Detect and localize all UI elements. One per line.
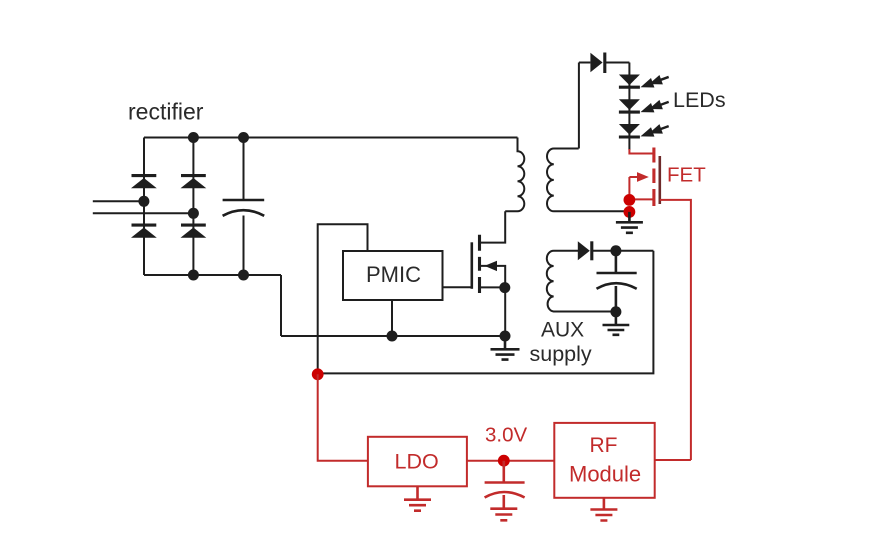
node dot PMIC ground <box>387 331 398 342</box>
svg-text:LEDs: LEDs <box>673 88 726 112</box>
svg-text:LDO: LDO <box>395 450 439 474</box>
diode D9 aux rectifier <box>578 241 592 260</box>
transistor Q1 MOSFET gate bar <box>470 242 473 288</box>
wire Q2 gate to RF module <box>660 200 691 460</box>
wire aux output <box>592 250 653 252</box>
wire rectifier bottom rail <box>144 274 281 276</box>
node dot top rail middle <box>188 132 199 143</box>
ground symbol LDO <box>404 486 431 510</box>
ground symbol aux <box>603 312 630 335</box>
RF module box U3 <box>554 423 654 498</box>
capacitor C2 aux <box>597 251 637 312</box>
ground symbol FET source <box>616 212 643 233</box>
transistor Q1 body connection <box>480 266 506 288</box>
wire rectifier left leg <box>143 138 145 276</box>
transistor Q2 channel segments <box>652 148 655 207</box>
transformer T1 secondary winding <box>547 149 627 212</box>
PMIC box U1 <box>343 251 443 300</box>
LDO box U2 <box>368 437 467 487</box>
wire aux to dc node <box>320 251 653 374</box>
transistor Q2 body diode arrow <box>637 172 649 182</box>
LED D7 <box>619 99 640 112</box>
node dot aux cap ground <box>610 306 621 317</box>
node dot Q1 source <box>499 282 510 293</box>
node dot aux output <box>610 245 621 256</box>
wire LED chain vertical <box>628 63 630 151</box>
transistor Q1 drain wire to transformer <box>480 211 506 242</box>
wire diode to LED chain <box>605 62 630 64</box>
wire RF module output <box>655 459 691 461</box>
svg-text:AUX: AUX <box>541 319 584 342</box>
wire PMIC ground pin <box>391 300 393 336</box>
wire LDO to RF module <box>467 460 554 462</box>
ground symbol C3 <box>490 509 517 521</box>
transistor Q1 source wire <box>480 286 506 288</box>
LED D8 <box>619 124 640 137</box>
diode D2 top-middle <box>181 176 207 189</box>
diode D3 bottom-left <box>131 225 157 238</box>
transformer T1 primary winding <box>505 138 524 212</box>
wire Q1 source to ground rail <box>504 287 506 336</box>
node dot bottom rail cap <box>238 270 249 281</box>
node dot 3.0V (red) <box>498 455 510 467</box>
node dot AC2 <box>188 208 199 219</box>
wire capacitor leg <box>243 138 245 276</box>
diode D4 bottom-middle <box>181 225 207 238</box>
LED D8 light arrows <box>639 121 671 141</box>
wire ground rail <box>281 335 505 337</box>
diode D1 top-left <box>131 176 157 189</box>
transistor Q2 gate bar <box>658 156 661 204</box>
node dot bottom rail middle <box>188 270 199 281</box>
node dot secondary return (red) <box>624 206 636 218</box>
svg-text:Module: Module <box>569 462 641 487</box>
node dot ground rail <box>500 331 511 342</box>
capacitor C1 filter <box>223 200 265 216</box>
wire down to ground rail <box>280 275 282 336</box>
wire PMIC gate drive <box>443 286 472 288</box>
diode D5 blocking <box>590 53 604 74</box>
LED D7 light arrows <box>639 97 671 117</box>
node dot top rail cap <box>238 132 249 143</box>
wire AC input line 2 <box>93 212 194 214</box>
node dot DC bus (red) <box>312 368 324 380</box>
transistor Q1 channel segments <box>478 235 481 293</box>
LED D6 <box>619 75 640 88</box>
node dot AC1 <box>138 196 149 207</box>
LED D6 light arrows <box>639 72 671 92</box>
svg-text:3.0V: 3.0V <box>485 424 527 447</box>
svg-text:rectifier: rectifier <box>128 99 204 125</box>
svg-text:FET: FET <box>667 164 706 187</box>
transistor Q2 source wire <box>629 198 654 200</box>
wire rectifier middle leg <box>192 138 194 276</box>
wire PMIC feedback loop <box>318 224 368 372</box>
svg-text:supply: supply <box>530 342 592 366</box>
capacitor C3 output <box>485 461 525 509</box>
svg-text:PMIC: PMIC <box>366 262 421 287</box>
transistor Q2 body connection <box>629 177 646 199</box>
ground symbol main <box>491 336 520 360</box>
node dot Q2 source (red) <box>624 194 636 206</box>
ground symbol RF module <box>590 498 617 521</box>
transistor Q1 body diode arrow <box>485 261 498 271</box>
wire AC input line 1 <box>93 200 144 202</box>
wire DC node to LDO <box>318 374 368 460</box>
svg-text:RF: RF <box>590 434 618 457</box>
transformer T2 aux winding <box>547 251 613 312</box>
wire to blocking diode <box>579 62 591 64</box>
wire top rail <box>144 137 518 139</box>
wire secondary top riser <box>578 63 580 149</box>
transistor Q2 FET drain wire (red) <box>629 149 654 154</box>
